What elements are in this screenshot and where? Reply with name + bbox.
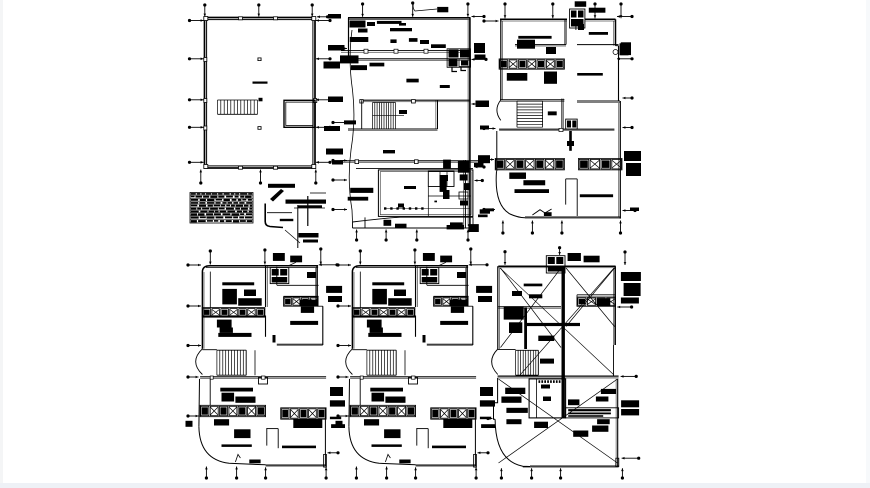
plan 1 right room (mumty) <box>284 100 315 127</box>
plan 3 label above top <box>575 1 587 7</box>
plan 4 left wall <box>202 272 210 349</box>
plan 4 below band blob a <box>214 419 229 425</box>
plan 6 label c2 <box>512 291 522 296</box>
plan 4 window band upper-left <box>202 308 265 317</box>
plan 5 lower-left cluster a <box>367 320 382 328</box>
plan 4 left wall lower <box>198 379 201 427</box>
plan 6 label d <box>538 336 554 341</box>
plan 6 left cluster <box>504 306 524 319</box>
plan 6 blob le <box>534 422 548 428</box>
plan 5 lower-right bar <box>432 446 466 449</box>
plan 4 dim marker bottom 3 <box>264 467 267 479</box>
plan 6 dim marker top 2 <box>558 246 561 255</box>
plan 1 dim marker left b <box>188 98 204 101</box>
plan 5 lower-left bar 2 <box>372 444 402 447</box>
margin label p1-p2 a <box>328 14 341 19</box>
plan 6 thick center wall <box>562 267 565 418</box>
plan 2 label bottom a <box>384 220 392 226</box>
margin label p2-p3 d <box>480 126 489 130</box>
plan 6 stair walls <box>498 350 539 376</box>
plan 2 window sill line upper <box>341 49 470 53</box>
plan 5 dim marker bottom 4 <box>475 467 478 479</box>
plan 3 dim marker bottom 1 <box>501 221 504 235</box>
plan 1 dim marker right bottom <box>316 161 332 164</box>
plan 5 label box above top b <box>438 256 452 266</box>
plan 5 dim marker right a <box>469 263 489 266</box>
plan 1 dim marker right a <box>316 57 332 60</box>
plan 5 lower-left cluster b <box>370 328 383 333</box>
plan 6 label above b <box>584 256 600 263</box>
plan 4 mid wall <box>202 316 265 318</box>
plan 4 lower-left bar 2 <box>222 444 252 447</box>
plan 3 lintel bar left <box>518 36 551 39</box>
plan 2 label beam mid <box>431 44 446 48</box>
plan 6 bottom-left arc <box>495 419 530 466</box>
plan 5 center vertical wall <box>416 266 418 337</box>
plan 3 bottom-left arc <box>496 171 525 218</box>
plan 1 dim marker right-top corner <box>317 15 329 18</box>
plan 6 left room divider <box>498 307 561 309</box>
plan 4 lower-left cluster b <box>220 328 233 333</box>
plan 6 dim marker left a <box>486 402 492 405</box>
plan 4 dim marker top 2 <box>263 248 266 264</box>
plan 2 dim marker top 3 <box>466 2 469 16</box>
plan 2 label top-left a <box>350 21 366 28</box>
right margin band <box>866 0 870 488</box>
plan 5 dim marker bottom 1 <box>355 467 358 480</box>
plan 6 right outside blob e <box>621 298 639 304</box>
plan 2 label bottom c <box>450 222 463 226</box>
plan 2 dim marker right-top corner <box>472 15 486 18</box>
plan 2 dim marker top 1 <box>361 2 364 16</box>
stair detail upper slab bar <box>268 184 295 188</box>
plan 3 dim marker left d <box>482 208 495 211</box>
plan 3 toilet walls top <box>576 19 584 30</box>
plan 4 right room cluster b <box>301 307 314 313</box>
plan 3 dim marker top 3 <box>593 2 596 18</box>
plan 2 dim marker left d <box>331 178 347 181</box>
plan 2 dim marker top 2 <box>411 1 414 16</box>
plan 2 label hall <box>440 85 450 88</box>
plan 3 left label lower <box>485 208 494 211</box>
stair detail wall L-section <box>265 204 292 228</box>
plan 4 below band blob b <box>234 429 250 438</box>
plan 6 blob ld <box>506 419 521 424</box>
plan 2 bottom blob e <box>468 224 478 232</box>
plan 2 label top right q <box>437 7 448 12</box>
plan 2 dim marker bottom 2 <box>385 230 388 242</box>
plan 1 dim marker top 3 <box>311 3 314 16</box>
left margin band <box>0 0 3 488</box>
plan 6 left cluster b <box>509 322 522 333</box>
plan 6 dim marker bottom 4 <box>621 468 624 479</box>
plan 1 stair hatch <box>218 100 258 114</box>
plan 3 kitchen bar lower <box>580 194 613 197</box>
plan 5 dim marker top 3 <box>469 247 472 264</box>
plan 5 dim marker top 2 <box>413 248 416 264</box>
plan 2 dim marker right a <box>472 58 488 61</box>
plan 4 left margin blob <box>186 421 193 427</box>
plan 2 dim marker right c <box>475 165 486 168</box>
plan 5 window band lower-left <box>350 405 416 416</box>
plan 4 right label cluster2 <box>328 296 342 302</box>
plan 3 left arc bump <box>497 100 501 121</box>
plan 6 top-right room divider <box>577 295 615 307</box>
plan 6 blob lg <box>592 426 608 432</box>
plan 3 entry steps <box>532 209 551 216</box>
plan 4 vertical dash mid <box>273 335 276 343</box>
plan 1 dim marker bottom 1 <box>199 170 202 185</box>
plan 5 stair hatch <box>367 350 396 375</box>
plan 1 parapet dash <box>253 82 268 84</box>
plan 3 outline walls <box>500 19 616 99</box>
plan 2 dim marker left c <box>331 159 347 162</box>
plan 4 label box above top b <box>288 256 302 266</box>
plan 3 toilet boxes mid <box>566 119 578 129</box>
plan 1 dim marker right b <box>316 98 332 101</box>
plan 2 label lounge <box>383 150 395 153</box>
plan 5 right blob lower c <box>481 424 495 428</box>
margin label p2-p3 a <box>474 43 485 53</box>
plan 5 window band upper-left <box>352 308 415 317</box>
plan 6 blob lb <box>501 397 521 403</box>
plan 3 right label mid a <box>624 151 641 161</box>
plan 6 label above a <box>568 253 581 261</box>
plan 5 right room cluster b <box>451 307 464 313</box>
plan 2 left boundary leader polyline <box>349 30 354 222</box>
plan 4 dim marker left a <box>186 263 201 266</box>
plan 5 below band blob b <box>384 429 400 438</box>
plan 3 dim marker right b <box>617 57 634 60</box>
plan 2 wall line upper2 <box>344 59 470 61</box>
plan 6 blob lh <box>597 419 610 424</box>
plan 5 below band blob a <box>364 419 379 425</box>
plan 5 lower cluster b <box>385 397 405 403</box>
plan 2 dim marker bottom 3 <box>415 230 418 242</box>
plan 6 label c <box>529 294 542 298</box>
plan 5 door box on mid wall <box>409 378 418 385</box>
plan 6 lower big diagonal X <box>499 379 618 463</box>
plan 5 dim marker right b <box>478 451 490 454</box>
plan 6 top toilet cluster <box>546 256 565 273</box>
plan 1 column C3 <box>258 126 262 130</box>
margin label p1-p2 f <box>326 149 343 155</box>
plan 3 window band lower left <box>495 158 564 170</box>
plan 1 dim marker left a <box>188 57 204 60</box>
plan 3 top toilet cluster <box>570 9 585 28</box>
plan 5 window band right <box>434 297 469 306</box>
plan 1 dim marker right top <box>316 19 332 22</box>
plan 4 right wall lower <box>324 408 326 466</box>
plan 5 stair side walls <box>352 350 405 376</box>
plan 5 entry steps <box>385 454 410 463</box>
plan 4 right blob lower b <box>330 417 341 420</box>
plan 5 wardrobe cluster <box>372 289 387 305</box>
plan 2 toilet fixture b <box>443 190 450 199</box>
plan 4 lower-right partition walls <box>267 428 278 448</box>
plan 4 right room bar <box>290 321 318 325</box>
plan 3 bottom wall <box>525 216 621 218</box>
plan 3 stair label <box>548 111 557 115</box>
plan 3 dim marker bottom 2 <box>531 221 534 235</box>
stair detail beam cross <box>294 193 326 248</box>
plan 3 window band lower right <box>579 158 623 170</box>
plan 1 column C2 <box>259 98 263 102</box>
plan 3 hall bar <box>577 73 603 76</box>
plan 5 right top room walls <box>427 266 469 306</box>
plan 5 dim marker left e <box>336 414 348 417</box>
plan 1 dim marker top 1 <box>203 3 206 16</box>
plan 6 left room diagonal X <box>501 268 562 348</box>
plan 2 label top-left c <box>367 22 375 26</box>
plan 1 dim marker right c <box>316 126 332 129</box>
plan 6 blob la <box>505 388 525 394</box>
bottom scrollbar band <box>0 483 870 488</box>
plan 5 vertical dash mid <box>423 335 426 343</box>
plan 2 label room c <box>409 38 418 42</box>
plan 4 lower-left cluster a <box>217 320 232 328</box>
plan 6 thick left vertical bar <box>524 308 527 349</box>
plan 3 right label mid b <box>626 163 641 176</box>
plan 4 outline top wall <box>202 266 318 272</box>
plan 3 dim marker left b <box>482 127 495 130</box>
plan 5 window band lower-right <box>431 408 476 419</box>
plan 4 dim marker top 1 <box>209 249 212 264</box>
plan 2 right service shaft double wall <box>464 160 466 228</box>
plan 2 dim marker right d <box>475 179 484 182</box>
plan 3 dim marker left a <box>482 19 498 22</box>
plan 4 bottom wall <box>266 454 327 467</box>
plan 2 dim marker right b <box>472 102 486 105</box>
plan 4 center vertical wall <box>266 266 268 337</box>
plan 2 label bar b <box>390 28 412 31</box>
plan 6 right arrow a <box>617 305 633 308</box>
plan 3 dim marker bottom 4 <box>619 221 622 235</box>
plan 4 window band lower-right <box>281 408 326 419</box>
plan 2 label bottom b <box>395 224 407 228</box>
plan 2 stair flight walls <box>348 100 438 130</box>
plan 5 lower-left bar <box>368 333 401 337</box>
margin label p2-p3 f <box>478 155 490 163</box>
plan 2 stair hatch <box>373 103 396 130</box>
plan 3 right wall lower <box>619 101 621 219</box>
plan 3 dim marker right e <box>623 209 637 212</box>
plan 3 dim marker right d <box>623 126 634 129</box>
plan 3 wardrobe blob b <box>546 47 556 54</box>
plan 2 toilet block outer <box>378 170 473 217</box>
plan 3 dim marker left c <box>482 158 494 161</box>
plan 5 bottom wall <box>416 454 477 467</box>
plan 6 stair hatch <box>516 350 539 375</box>
plan 5 toilet cluster top <box>420 268 439 284</box>
margin label p2-p3 g <box>480 209 490 213</box>
plan 5 left wall lower <box>348 379 351 427</box>
plan 4 dim marker right a <box>319 263 339 266</box>
plan 6 bottom wall <box>523 458 619 467</box>
plan 2 label room center <box>406 79 418 83</box>
plan 4 dim marker bottom 2 <box>235 467 238 480</box>
plan 6 blob above wall <box>540 359 554 364</box>
margin label p2-p3 e <box>474 163 484 167</box>
plan 4 window band right <box>284 297 319 306</box>
plan 4 stair hatch <box>217 350 246 375</box>
plan 2 label left g <box>348 197 369 201</box>
plan 6 blob li <box>601 389 616 394</box>
plan 6 dim marker bottom 3 <box>559 468 562 479</box>
plan 2 label left e <box>370 63 385 67</box>
plan 4 label above top a <box>273 253 285 261</box>
plan 2 bottom blob d <box>447 225 464 229</box>
plan 3 dim marker top 4 <box>619 2 622 18</box>
plan 5 extra furniture a <box>394 290 406 297</box>
plan 3 dim marker bottom 3 <box>560 221 563 235</box>
plan 6 right outside blob c <box>621 272 641 281</box>
plan 4 bed bar <box>222 282 254 285</box>
plan 6 stairwell detail rect <box>529 379 566 418</box>
plan 4 stair left arc bump <box>196 349 203 375</box>
plan 5 right room cluster a <box>450 300 469 307</box>
plan 3 right wall upper step <box>577 46 620 103</box>
plan 5 dim marker left d <box>336 375 348 378</box>
plan 4 lower right outer wall <box>277 306 323 346</box>
plan 5 bed bar <box>372 282 404 285</box>
plan 2 toilet inner partitions <box>384 171 471 216</box>
plan 3 window band upper <box>499 59 564 69</box>
plan 2 label top-left b <box>358 29 368 33</box>
margin label p2-p3 c <box>476 101 490 108</box>
plan 2 lower band wall <box>356 168 473 170</box>
plan 4 right room cluster a <box>300 300 319 307</box>
plan 6 outline <box>498 266 616 349</box>
plan 5 lower bed bar <box>370 388 403 392</box>
plan 3 dim marker right a <box>617 15 634 18</box>
plan 4 dim marker top 3 <box>319 247 322 264</box>
plan 6 blob lf <box>573 431 588 437</box>
plan 5 mid floor wall <box>350 376 476 379</box>
plan 2 stair mid rail <box>373 110 408 116</box>
plan 5 bottom-left arc <box>349 427 416 465</box>
plan 2 bottom boundary <box>353 217 474 228</box>
plan 2 label beam top <box>377 21 402 24</box>
margin label p2-p3 b <box>475 55 486 60</box>
plan 2 label bar c <box>420 40 429 44</box>
plan 4 lower-right heavy cluster <box>293 419 322 428</box>
stair detail mid landing bar <box>286 200 327 204</box>
plan 1 column C1 <box>258 58 262 62</box>
plan 4 lower cluster b <box>235 397 255 403</box>
plan 3 box near dark wall <box>567 141 574 146</box>
plan 6 stairwell blob b <box>543 397 551 402</box>
plan 4 lower cluster a <box>222 393 235 402</box>
plan 3 right pillar cluster <box>613 43 629 55</box>
plan 5 lower-right partition walls <box>417 428 428 448</box>
plan 3 dresser <box>507 73 528 81</box>
plan 4 extra furniture a <box>244 290 256 297</box>
plan 4 dim marker right b <box>328 451 340 454</box>
plan 4 entry steps <box>235 454 260 463</box>
plan 3 right dash <box>630 208 639 212</box>
plan 5 right label cluster2 <box>478 296 492 302</box>
plan 2 toilet dots row <box>384 207 424 209</box>
legend schedule table <box>190 193 253 224</box>
plan 2 label mid-loft <box>399 23 406 26</box>
plan 6 thick horizontal bar <box>525 323 580 326</box>
plan 2 kitchen cluster top-right <box>447 49 470 72</box>
plan 4 mid floor wall <box>200 376 326 379</box>
plan 4 lower-left bar <box>218 333 251 337</box>
plan 6 window band right <box>577 297 616 306</box>
plan 2 label room b <box>390 39 396 43</box>
plan 2 mid floor wall <box>360 100 470 103</box>
plan 4 lower-right bar <box>282 446 316 449</box>
plan 6 right outside blob d <box>624 283 641 296</box>
plan 4 lower-left inner wall <box>209 379 211 405</box>
plan 3 top beam bar <box>589 8 606 13</box>
plan 5 left margin blob <box>336 421 343 427</box>
plan 4 dim marker left e <box>186 414 198 417</box>
plan 3 mid wall horizontal <box>500 100 564 102</box>
plan 1 dim marker left bottom <box>188 161 204 164</box>
plan 1 dim marker bottom 3 <box>314 170 317 185</box>
margin label p2-p3 h <box>478 215 488 218</box>
plan 5 outline top wall <box>352 266 468 272</box>
plan 6 beam bar a <box>524 284 543 287</box>
plan 1 dim marker left c <box>188 126 204 129</box>
plan 5 extra furniture b <box>457 272 466 278</box>
plan 6 right room diagonal X <box>566 268 615 327</box>
plan 4 dim marker left b <box>186 304 201 307</box>
margin label p1-p2 c <box>324 62 341 69</box>
plan 3 label lower b <box>523 180 545 185</box>
plan 5 stair left arc bump <box>346 349 353 375</box>
plan 2 toilet fixture c <box>398 204 404 208</box>
plan 3 dim marker top 2 <box>551 2 554 18</box>
plan 3 dim marker right c <box>623 96 634 99</box>
plan 1 dim marker top 2 <box>257 3 260 16</box>
plan 6 stairwell blob a <box>541 385 550 389</box>
stair detail tread bar <box>280 219 294 221</box>
plan 5 dim marker left c <box>336 344 351 347</box>
plan 3 dark vertical wall mid <box>569 131 572 151</box>
plan 5 lower-right heavy cluster <box>443 419 472 428</box>
plan 2 label left outside a <box>350 37 369 42</box>
plan 4 window band lower-left <box>200 405 266 416</box>
plan 3 right outside label a <box>621 42 631 55</box>
plan 6 stairwell dotted row <box>539 380 561 383</box>
plan 3 interior wall vertical a <box>565 19 567 44</box>
plan 3 hall wall horizontal <box>515 45 619 46</box>
plan 6 dim marker bottom 1 <box>500 468 503 479</box>
plan 6 dim marker bottom 2 <box>530 468 533 479</box>
plan 1 dim marker bottom 2 <box>259 170 262 185</box>
plan 5 dim marker top 1 <box>359 249 362 264</box>
plan 4 dim marker left c <box>186 344 201 347</box>
plan 3 bed cluster <box>544 72 557 84</box>
plan 5 right room bar <box>440 321 468 325</box>
plan 5 lower right outer wall <box>427 306 473 346</box>
plan 2 label dining <box>404 186 416 189</box>
plan 3 dim marker top 1 <box>503 2 506 18</box>
plan 2 label left stair <box>344 120 356 124</box>
plan 3 mid vertical wall <box>562 99 564 130</box>
plan 5 left wall <box>352 272 360 349</box>
plan 2 outline walls <box>348 18 471 228</box>
plan 4 toilet cluster top <box>270 268 289 284</box>
plan 4 right top room walls <box>277 266 319 306</box>
plan 6 dim marker top 3 <box>623 250 626 265</box>
plan 2 label left f <box>350 188 373 193</box>
plan 4 dim marker bottom 4 <box>325 467 328 479</box>
